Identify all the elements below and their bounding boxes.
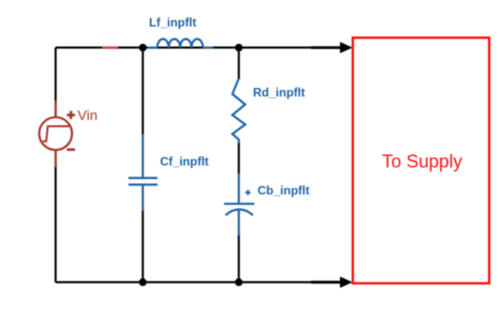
svg-text:Cb_inpflt: Cb_inpflt bbox=[258, 183, 310, 197]
resistor Rd_inpflt bbox=[232, 79, 245, 144]
svg-text:To Supply: To Supply bbox=[382, 151, 463, 172]
svg-text:Vin: Vin bbox=[78, 107, 98, 123]
voltage source minus sign bbox=[67, 148, 75, 151]
voltage source Vin lead red upper bbox=[55, 101, 57, 118]
svg-text:Rd_inpflt: Rd_inpflt bbox=[253, 86, 305, 100]
voltage source Vin step waveform bbox=[43, 126, 69, 141]
wire between Rd and Cb bbox=[238, 143, 240, 174]
junction node bottom-left bbox=[139, 278, 147, 286]
svg-text:Cf_inpflt: Cf_inpflt bbox=[160, 155, 209, 169]
junction node top-left bbox=[139, 44, 147, 52]
svg-text:Lf_inpflt: Lf_inpflt bbox=[149, 16, 196, 30]
wire middle vertical upper (node to Cf) bbox=[142, 48, 144, 134]
red box To Supply bbox=[353, 38, 489, 284]
capacitor Cb plus polarity mark bbox=[245, 190, 250, 195]
wire bottom horizontal bbox=[56, 281, 311, 283]
junction node bottom-right bbox=[235, 278, 243, 286]
arrow bottom to supply bbox=[311, 277, 353, 288]
wire left vertical bbox=[55, 48, 57, 283]
voltage source Vin circle bbox=[39, 117, 72, 150]
junction node top-right bbox=[235, 44, 243, 52]
wire red highlight segment on top wire bbox=[102, 46, 118, 48]
wire below Cb bbox=[238, 236, 240, 283]
wire middle vertical lower (Cf to bottom) bbox=[142, 211, 144, 282]
inductor Lf_inpflt bbox=[148, 39, 214, 48]
capacitor Cb_inpflt (polarized) bbox=[224, 174, 255, 236]
voltage source plus sign bbox=[67, 111, 75, 119]
voltage source Vin lead red lower bbox=[55, 150, 57, 167]
capacitor Cf_inpflt bbox=[129, 134, 158, 211]
wire right vertical upper (node to Rd) bbox=[238, 48, 240, 79]
wire top horizontal bbox=[56, 47, 311, 49]
arrow top to supply bbox=[311, 42, 353, 53]
